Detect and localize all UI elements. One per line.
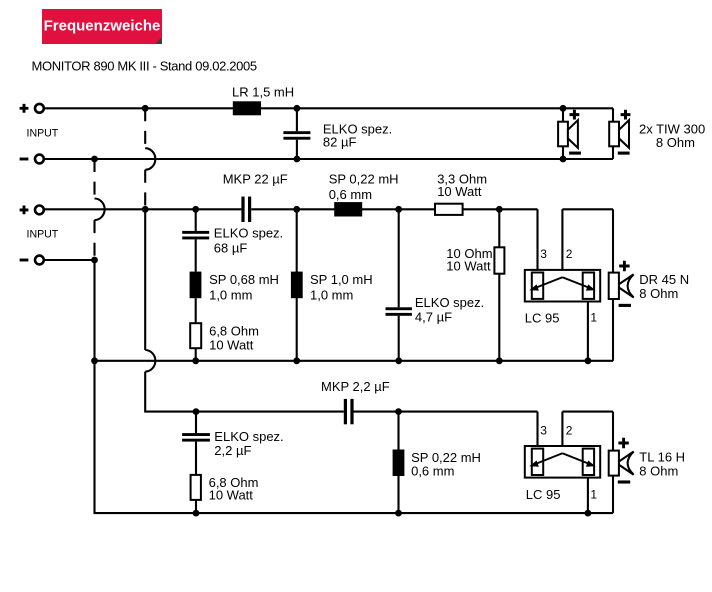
node: speaker1 + junction: [560, 105, 567, 112]
svg-text:10 Watt: 10 Watt: [209, 338, 254, 353]
svg-text:1,0 mm: 1,0 mm: [209, 287, 252, 302]
wire: section2 + rail: [44, 209, 538, 272]
svg-text:0,6 mm: 0,6 mm: [329, 187, 372, 202]
branch: ELKO 68uF + SP 0,68mH + 6,8 Ohm: [182, 209, 209, 360]
svg-text:MKP 22 µF: MKP 22 µF: [223, 171, 288, 186]
node: link on section2 bus: [91, 357, 98, 364]
node: branch3 top: [395, 206, 402, 213]
node: tw branch2 top: [395, 408, 402, 415]
wire: pin1 to bus (section 3): [587, 478, 589, 513]
label SP 0,22 mH / 0,6 mm (tweeter): [411, 450, 481, 479]
svg-text:TL 16 H: TL 16 H: [639, 449, 685, 464]
svg-text:8 Ohm: 8 Ohm: [656, 135, 695, 150]
resistor 3,3 Ohm (series): [435, 204, 463, 215]
node: - feed junction: [91, 257, 98, 264]
svg-text:1: 1: [590, 310, 597, 324]
svg-text:SP 0,22 mH: SP 0,22 mH: [329, 171, 399, 186]
node: junction - rail / link B: [91, 156, 98, 163]
node: junction + rail / link A: [142, 105, 149, 112]
node: branch1 bottom: [192, 357, 199, 364]
wire: pin2 feed and speaker drop (section2): [562, 209, 613, 277]
svg-text:4,7 µF: 4,7 µF: [415, 310, 452, 325]
speaker TL 16 H: [609, 438, 634, 513]
svg-text:MKP 2,2 µF: MKP 2,2 µF: [321, 379, 390, 394]
attenuator LC 95 (section 3): [525, 446, 600, 478]
svg-text:1: 1: [590, 487, 597, 501]
input terminal + (section 1): [20, 104, 44, 113]
node: cap top junction: [294, 105, 301, 112]
node: branch2 bottom: [293, 357, 300, 364]
svg-text:3: 3: [540, 247, 547, 261]
node: link + on section2 rail: [142, 206, 149, 213]
capacitor MKP 2,2 uF (series): [344, 399, 354, 424]
speaker DR 45 N: [609, 261, 634, 361]
wire: section3 + rail: [352, 412, 537, 449]
wire: dashed link + (section1 to section2) with hop: [145, 108, 155, 209]
wire: speaker2 verticals: [612, 108, 614, 159]
svg-text:SP 0,68 mH: SP 0,68 mH: [209, 272, 279, 287]
red title banner: [42, 9, 162, 44]
svg-text:INPUT: INPUT: [27, 228, 59, 240]
svg-text:8 Ohm: 8 Ohm: [639, 286, 678, 301]
svg-text:DR 45 N: DR 45 N: [639, 272, 689, 287]
node: tw branch1 bottom: [193, 510, 200, 517]
svg-text:6,8 Ohm: 6,8 Ohm: [209, 324, 259, 339]
input terminal - (section 2): [20, 256, 44, 265]
speaker TIW 300 #1: [558, 110, 581, 153]
label 6,8 Ohm / 10 Watt: [209, 324, 259, 353]
branch: capacitor ELKO spez. 4,7 uF: [386, 209, 412, 360]
svg-text:Frequenzweiche: Frequenzweiche: [44, 17, 161, 34]
wire: link - down to tweeter bus (solid): [95, 260, 614, 513]
capacitor ELKO spez. 82 uF: [283, 108, 310, 159]
svg-text:SP 1,0 mH: SP 1,0 mH: [310, 272, 373, 287]
label SP 0,22 mH / 0,6 mm: [329, 171, 399, 202]
svg-text:8 Ohm: 8 Ohm: [639, 463, 678, 478]
node: tw branch1 top: [193, 408, 200, 415]
label SP 1,0 mH / 1,0 mm: [310, 272, 373, 302]
wire: link + down to section3 with hop over bus: [145, 209, 344, 411]
branch: inductor SP 1,0 mH: [291, 209, 303, 360]
label ELKO spez. 2,2 uF: [214, 429, 283, 458]
svg-text:2: 2: [566, 424, 573, 438]
svg-text:68 µF: 68 µF: [214, 241, 248, 256]
node: tw branch2 bottom: [395, 510, 402, 517]
wire: dashed link - (section1 to section2) with hop: [95, 159, 105, 260]
svg-text:3: 3: [540, 424, 547, 438]
branch: ELKO 2,2uF + 6,8 Ohm: [182, 412, 210, 513]
wire: section1 - rail: [44, 158, 613, 160]
svg-text:82 µF: 82 µF: [323, 135, 357, 150]
svg-text:10 Watt: 10 Watt: [209, 488, 254, 503]
branch: inductor SP 0,22 mH (tweeter): [393, 412, 405, 513]
label ELKO spez. 68 uF: [214, 225, 283, 255]
label TL 16 H / 8 Ohm: [639, 449, 685, 478]
svg-text:2,2 µF: 2,2 µF: [214, 443, 251, 458]
svg-text:MONITOR 890 MK III - Stand 09.: MONITOR 890 MK III - Stand 09.02.2005: [32, 58, 257, 73]
svg-text:10 Watt: 10 Watt: [437, 184, 482, 199]
inductor LR 1,5 mH: [233, 101, 261, 115]
svg-text:ELKO spez.: ELKO spez.: [214, 429, 283, 444]
node: branch4 bottom: [496, 357, 503, 364]
svg-text:1,0 mm: 1,0 mm: [310, 287, 353, 302]
label 2x TIW 300 / 8 Ohm: [639, 122, 705, 150]
wire: pin2 feed and speaker drop (section3): [562, 412, 613, 454]
svg-text:LC 95: LC 95: [525, 311, 560, 326]
label SP 0,68 mH / 1,0 mm: [209, 272, 279, 302]
node: speaker1 - junction: [560, 156, 567, 163]
node: branch2 top: [293, 206, 300, 213]
wire: speaker1 branch verticals: [562, 108, 564, 159]
branch: resistor 10 Ohm: [494, 209, 504, 360]
svg-text:SP 0,22 mH: SP 0,22 mH: [411, 450, 481, 465]
svg-text:ELKO spez.: ELKO spez.: [214, 225, 283, 240]
label ELKO spez. 82 uF: [323, 122, 392, 150]
inductor SP 0,22 mH (series): [334, 202, 362, 216]
node: pin1 bus junction (section 3): [585, 510, 592, 517]
node: branch1 top: [192, 206, 199, 213]
wire: pin1 to bus (section 2): [587, 302, 589, 361]
svg-text:LC 95: LC 95: [526, 487, 561, 502]
attenuator LC 95 (section 2): [525, 270, 600, 302]
svg-text:10 Watt: 10 Watt: [446, 259, 491, 274]
label 3,3 Ohm / 10 Watt: [437, 171, 487, 199]
node: branch3 bottom: [395, 357, 402, 364]
svg-text:0,6 mm: 0,6 mm: [411, 464, 454, 479]
svg-text:LR 1,5 mH: LR 1,5 mH: [232, 85, 294, 100]
wire: section1 + rail: [44, 107, 613, 109]
svg-text:2: 2: [566, 247, 573, 261]
node: branch4 top: [496, 206, 503, 213]
label 10 Ohm / 10 Watt: [446, 246, 492, 273]
speaker TIW 300 #2: [609, 110, 630, 153]
svg-text:ELKO spez.: ELKO spez.: [415, 295, 484, 310]
label DR 45 N / 8 Ohm: [639, 272, 689, 301]
input terminal - (section 1): [20, 155, 44, 164]
svg-text:INPUT: INPUT: [27, 127, 59, 139]
node: cap bottom junction: [294, 156, 301, 163]
capacitor MKP 22 uF (series): [241, 197, 251, 222]
wire: section2 bus: [95, 360, 614, 362]
label 6,8 Ohm / 10 Watt (tweeter): [209, 475, 259, 502]
input terminal + (section 2): [20, 206, 44, 215]
label ELKO spez. 4,7 uF: [415, 295, 484, 325]
node: pin1 bus junction (section 2): [585, 357, 592, 364]
wire: section2 - feed: [44, 259, 95, 261]
